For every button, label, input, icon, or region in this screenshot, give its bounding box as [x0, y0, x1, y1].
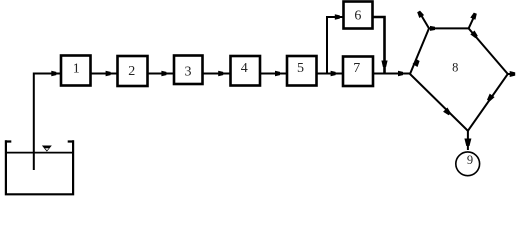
- svg-text:3: 3: [185, 65, 192, 80]
- svg-text:1: 1: [73, 62, 80, 77]
- svg-text:7: 7: [353, 61, 360, 76]
- svg-text:9: 9: [467, 153, 473, 167]
- svg-text:8: 8: [452, 61, 458, 75]
- svg-text:2: 2: [128, 64, 135, 79]
- svg-text:4: 4: [241, 61, 248, 76]
- svg-text:5: 5: [297, 61, 304, 76]
- svg-text:6: 6: [354, 8, 361, 23]
